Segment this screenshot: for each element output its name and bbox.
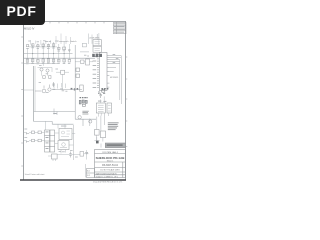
step junction label xyxy=(53,112,57,115)
opto pin stubs below xyxy=(98,113,108,117)
svg-text:Used 3 wire soft start: Used 3 wire soft start xyxy=(25,173,45,176)
diode D3 xyxy=(27,132,30,134)
Q5 internal xyxy=(60,143,67,148)
crystal side dashes xyxy=(98,92,105,94)
left feeder parts column xyxy=(76,68,83,91)
diode D2 xyxy=(68,50,70,52)
IC bottom pin dashes xyxy=(101,88,108,89)
cluster dark row xyxy=(92,54,102,58)
title block side cells xyxy=(87,169,95,178)
label output xyxy=(62,151,78,157)
filter cap FL3 xyxy=(85,100,87,103)
step line junction xyxy=(54,109,57,116)
wire IC to right bus xyxy=(109,56,121,72)
wire branch horizontal xyxy=(23,89,34,91)
PDF badge xyxy=(0,0,45,25)
cap FL4 xyxy=(82,104,85,106)
resistor R7 xyxy=(42,59,44,62)
IC U1 right pins xyxy=(107,56,109,88)
resistor R4 xyxy=(52,44,54,46)
wire driver links xyxy=(90,113,105,142)
wire cluster links xyxy=(80,34,97,52)
capacitor C7 xyxy=(69,152,72,158)
label near module xyxy=(24,129,72,152)
label near Q3 xyxy=(39,82,49,93)
wire long vertical feed xyxy=(74,45,76,119)
resistor R15 xyxy=(38,131,41,134)
transistor Q4 xyxy=(48,85,51,92)
wire main left bus vertical xyxy=(33,66,35,121)
wire mid horizontal xyxy=(52,89,82,91)
bus junction marks xyxy=(71,88,79,91)
component value labels row1 xyxy=(26,41,65,52)
IC U1 body xyxy=(99,53,107,91)
pre-driver cluster parts xyxy=(93,40,101,53)
sheet bottom border xyxy=(20,179,126,181)
cluster dash labels xyxy=(84,55,89,57)
revision table xyxy=(114,22,127,33)
svg-text:Sheet 1: Sheet 1 xyxy=(107,159,114,162)
wire bus D horizontal xyxy=(29,46,57,48)
logo bar xyxy=(105,143,125,148)
resistor R8 xyxy=(47,59,49,62)
zener D8 xyxy=(58,47,60,49)
crystal Y1 xyxy=(102,90,105,92)
resistor R4b xyxy=(63,47,66,50)
resistor R12 xyxy=(32,131,35,134)
wire stub left of title block xyxy=(84,164,86,177)
opto internals xyxy=(98,105,111,111)
opto box U2 xyxy=(96,103,105,113)
wire input rows xyxy=(24,132,45,140)
transistor Q6 xyxy=(78,116,81,119)
J2 pins xyxy=(48,156,56,161)
svg-text:U4 MC68HC: U4 MC68HC xyxy=(89,38,100,40)
node bus B horizontal main xyxy=(24,57,95,59)
terminal column fills xyxy=(46,131,49,149)
cluster internals xyxy=(95,42,100,51)
diode D1 xyxy=(37,45,39,47)
revision table entries xyxy=(114,23,125,32)
mid horizontal labels xyxy=(62,90,68,91)
svg-text:SHERLOCK PD-1AB: SHERLOCK PD-1AB xyxy=(96,156,126,160)
aux parts right of bus xyxy=(81,60,85,64)
svg-text:SYSTEM LAB 4: SYSTEM LAB 4 xyxy=(102,151,118,154)
transistor Q7 xyxy=(89,120,92,123)
capacitor C8 xyxy=(99,93,102,98)
power module box M1 xyxy=(59,129,72,140)
title block outline xyxy=(95,150,126,178)
resistor R6 xyxy=(32,59,34,62)
wire right bus xyxy=(73,125,75,160)
diode D6 xyxy=(86,152,88,154)
resistor R2 xyxy=(32,44,34,46)
svg-text:DO NOT SCALE DWG: DO NOT SCALE DWG xyxy=(100,169,120,172)
svg-text:B 2: B 2 xyxy=(87,175,90,177)
svg-text:MSLD IV: MSLD IV xyxy=(24,26,35,30)
svg-text:Command + Switch: Command + Switch xyxy=(58,40,78,43)
wire X2 links xyxy=(56,72,69,89)
header pin dashes xyxy=(80,97,88,98)
capacitor C1 xyxy=(47,45,49,47)
output box F1 xyxy=(80,152,84,157)
aux part 2 xyxy=(86,59,90,65)
note text block right xyxy=(108,122,119,130)
node bus A horizontal xyxy=(24,53,73,55)
wire bus C horizontal xyxy=(24,63,58,65)
capacitor C3 xyxy=(52,59,54,62)
interconnect step wires xyxy=(33,112,96,127)
driver box Q5 xyxy=(58,141,69,150)
resistor R1 xyxy=(26,45,28,47)
zone tick marks left xyxy=(21,37,23,166)
svg-text:RS-8327-53-04: RS-8327-53-04 xyxy=(102,165,118,167)
svg-text:Dwg 4327536 Rev A sht 1 of 1: Dwg 4327536 Rev A sht 1 of 1 xyxy=(93,180,123,183)
svg-text:MC33035: MC33035 xyxy=(110,77,118,79)
aux wires xyxy=(75,34,93,62)
transistor Q3 xyxy=(35,86,46,93)
wire right bus verticals xyxy=(120,56,122,104)
net label text block xyxy=(82,111,88,115)
mid spur wires xyxy=(54,83,66,89)
IC U1 left pins xyxy=(97,55,99,88)
zone tick marks right xyxy=(126,57,128,147)
resistor R3 xyxy=(42,44,45,46)
transistor labels xyxy=(39,65,58,74)
diode D4 xyxy=(27,141,30,143)
component value labels row2 xyxy=(26,63,70,64)
mid spur labels xyxy=(53,88,63,89)
svg-text:SIZE B DWG 4327536 R: SIZE B DWG 4327536 R xyxy=(96,173,118,175)
opto box U3 xyxy=(107,103,112,113)
resistor R14 xyxy=(82,43,86,47)
resistor R16 xyxy=(38,139,41,142)
top feeder labels xyxy=(28,40,51,42)
module internal symbol xyxy=(61,131,70,137)
resistor R9b xyxy=(68,59,70,62)
filter cap FL1 xyxy=(79,100,81,104)
wire output chain xyxy=(57,154,80,156)
driver stage parts xyxy=(95,130,106,138)
coupling box X2 xyxy=(61,70,65,74)
resistor R10 xyxy=(43,76,45,79)
resistor R13 xyxy=(32,139,35,142)
connector J2 xyxy=(52,154,58,159)
wire module links xyxy=(55,133,76,154)
logo bar text smear xyxy=(107,144,123,145)
junction dots on bus xyxy=(32,53,64,54)
sheet frame border xyxy=(20,22,126,181)
resistor R5 xyxy=(26,59,28,62)
wire drops to relay cluster xyxy=(46,121,65,130)
wire output tail xyxy=(84,150,89,160)
resistor R9 xyxy=(58,59,60,62)
capacitor C2 xyxy=(37,59,39,62)
capacitor C3b xyxy=(63,59,65,62)
filter cap FL2 xyxy=(82,100,84,103)
capacitor C4 xyxy=(52,82,55,87)
connector dark mark xyxy=(96,141,99,144)
transistor Q1 xyxy=(40,68,43,71)
wire top feeders xyxy=(31,33,99,45)
wire emitter links xyxy=(38,68,53,76)
wire vertical drops cluster xyxy=(28,42,70,66)
svg-text:A 1: A 1 xyxy=(87,170,90,173)
module label xyxy=(61,125,66,128)
opto labels above xyxy=(98,101,106,102)
interconnect to title area xyxy=(94,137,101,148)
terminal column TB1 xyxy=(45,130,55,152)
wire IC bottom links xyxy=(101,96,105,103)
resistor R11 xyxy=(49,76,51,79)
wire fan labels xyxy=(113,54,119,63)
wire secondary left bus vertical xyxy=(34,66,36,112)
IC left pin net labels xyxy=(93,56,97,88)
transistor Q2 xyxy=(46,69,49,72)
zone tick marks top xyxy=(50,22,104,24)
svg-text:SCALE 1:1 SHEET 1 OF 1: SCALE 1:1 SHEET 1 OF 1 xyxy=(96,175,118,178)
